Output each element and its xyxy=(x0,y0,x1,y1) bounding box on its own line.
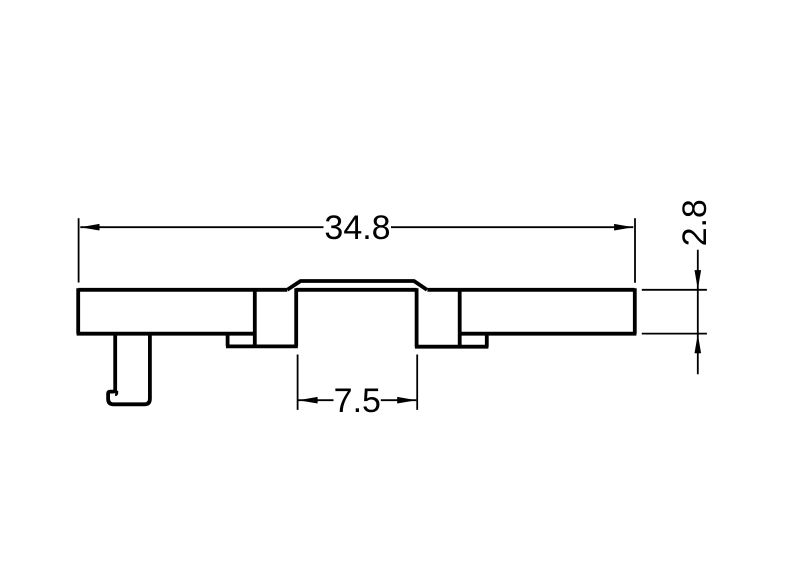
profile left edge xyxy=(76,288,80,334)
channel left wall xyxy=(294,288,298,346)
dim 7.5 left extension line xyxy=(297,355,299,410)
right step bottom xyxy=(415,345,489,349)
profile top edge left xyxy=(78,288,287,292)
dim 34.8 right arrowhead xyxy=(614,224,633,231)
channel right wall xyxy=(415,288,419,347)
left step vertical xyxy=(226,334,230,347)
left division line xyxy=(253,290,257,347)
dim 2.8 top extension line xyxy=(642,289,707,291)
hooked leg xyxy=(108,334,150,405)
svg-text:34.8: 34.8 xyxy=(324,209,390,247)
svg-text:7.5: 7.5 xyxy=(334,382,381,420)
channel inner top edge xyxy=(296,288,416,292)
dim 2.8 lower arrowhead xyxy=(695,334,702,353)
dim 34.8 left arrowhead xyxy=(80,224,99,231)
svg-text:2.8: 2.8 xyxy=(676,199,714,246)
profile bottom edge right xyxy=(460,332,637,336)
dim 2.8 upper arrowhead xyxy=(695,270,702,289)
dim 34.8 line right segment xyxy=(391,226,633,228)
dim 34.8 line left segment xyxy=(80,226,323,228)
right step vertical xyxy=(485,334,489,347)
leg inner lip xyxy=(115,391,117,395)
dim 34.8 right extension line xyxy=(634,218,636,283)
dim 7.5 left arrowhead xyxy=(298,397,317,404)
dim 34.8 left extension line xyxy=(78,218,80,282)
raised hat top with ramps xyxy=(287,281,427,290)
profile right edge xyxy=(633,288,637,334)
left step bottom xyxy=(226,344,298,348)
profile bottom edge left xyxy=(77,332,255,336)
dim 2.8 dimension line xyxy=(697,250,699,374)
dim 7.5 right arrowhead xyxy=(397,397,416,404)
dim 7.5 line right segment xyxy=(381,399,417,401)
dim 7.5 line left segment xyxy=(298,399,333,401)
dim 7.5 right extension line xyxy=(416,355,418,410)
dim 2.8 bottom extension line xyxy=(642,333,707,335)
profile top edge right xyxy=(427,288,634,292)
right division line xyxy=(458,290,462,347)
